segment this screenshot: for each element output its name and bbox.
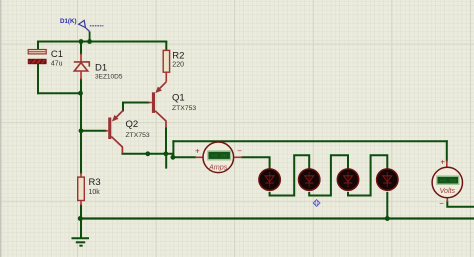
led D4 — [337, 169, 358, 190]
svg-text:+: + — [440, 157, 445, 166]
svg-text:ZTX753: ZTX753 — [126, 132, 150, 139]
svg-text:47u: 47u — [51, 61, 63, 68]
svg-text:−: − — [237, 146, 242, 155]
wire voltmeter minus out — [447, 202, 474, 207]
svg-text:10k: 10k — [89, 189, 101, 196]
svg-text:R3: R3 — [89, 177, 101, 188]
junction node dots — [78, 39, 390, 221]
ammeter Amps — [195, 142, 242, 173]
svg-text:D1(K): D1(K) — [60, 18, 77, 25]
wire left vertical to Q2 base junction — [80, 93, 82, 131]
wire C1 bottom lead — [37, 64, 39, 94]
resistor R3 — [78, 173, 101, 206]
capacitor C1 — [28, 49, 63, 67]
voltmeter Volts — [432, 157, 462, 207]
wire Q2 emitter to Q1 base — [123, 103, 149, 111]
svg-text:C1: C1 — [51, 49, 63, 60]
wire ammeter minus to LED1 — [242, 157, 269, 169]
svg-text:Amps: Amps — [208, 162, 228, 171]
svg-text:D1: D1 — [95, 63, 107, 74]
ground — [72, 238, 90, 246]
origin cursor marker — [313, 200, 320, 207]
wire bus to ground symbol — [80, 219, 82, 238]
wire Q2 collector to junction — [122, 153, 166, 155]
transistor Q2 — [106, 111, 150, 154]
wire ground bus — [80, 217, 474, 219]
svg-text:Q1: Q1 — [172, 92, 185, 103]
wire R3 bottom to bus — [80, 205, 82, 218]
wire LED2 to LED3 link — [309, 155, 348, 195]
wire C1 top lead — [37, 42, 39, 50]
wire LED1 to LED2 link — [270, 155, 310, 195]
voltage probe D1(K) — [60, 18, 103, 41]
wire Q2 base — [81, 130, 106, 132]
svg-text:R2: R2 — [172, 51, 184, 62]
svg-text:ZTX753: ZTX753 — [172, 105, 196, 112]
svg-text:+0.08: +0.08 — [440, 178, 457, 185]
wire D1 bottom — [80, 80, 82, 94]
svg-text:+: + — [195, 147, 200, 156]
wire D1 top — [80, 42, 82, 54]
led D2 — [259, 169, 280, 190]
zener diode D1 — [74, 54, 123, 81]
svg-text:220: 220 — [172, 61, 184, 68]
wire node to ammeter plus — [173, 156, 195, 158]
led D3 — [299, 169, 320, 190]
wire left vertical to R3 — [80, 131, 82, 173]
wire Q1 collector down — [165, 128, 167, 154]
wire LED4 to ground bus — [386, 193, 388, 219]
wire jog to ammeter node — [166, 154, 173, 158]
svg-text:Volts: Volts — [440, 188, 456, 195]
svg-text:3EZ10D5: 3EZ10D5 — [95, 73, 123, 80]
svg-text:−: − — [439, 199, 444, 208]
wire top rail to voltmeter — [173, 140, 446, 142]
resistor R2 — [163, 42, 184, 82]
wire voltmeter drop — [446, 141, 448, 160]
wire C1-D1 bottom link — [38, 92, 81, 94]
svg-text:Q2: Q2 — [126, 119, 139, 130]
wire top bus — [38, 41, 166, 43]
transistor Q1 — [149, 82, 197, 128]
led D5 — [377, 169, 398, 190]
wire collector stub — [165, 154, 167, 168]
wire node up to top rail — [172, 141, 174, 157]
svg-text:+0.00: +0.00 — [211, 153, 228, 160]
wire LED3 to LED4 link — [348, 155, 387, 195]
